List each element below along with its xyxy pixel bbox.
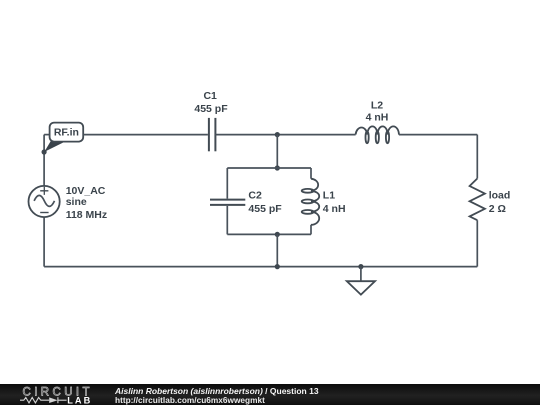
svg-text:LAB: LAB xyxy=(67,395,92,405)
svg-text:sine: sine xyxy=(66,196,87,208)
wire: tank bottom bar xyxy=(227,233,311,235)
svg-text:RF.in: RF.in xyxy=(54,127,79,139)
wire: C2 branch upper lead xyxy=(226,168,228,199)
CircuitLab logo squiggle: wire, resistor, diode xyxy=(20,397,67,403)
ground xyxy=(347,267,375,295)
wire: top from C1 to L2 xyxy=(215,134,355,136)
wire: middle branch from tank bottom bar to bottom rail xyxy=(276,234,278,266)
wire: L1 branch upper lead xyxy=(310,168,312,179)
svg-text:118 MHz: 118 MHz xyxy=(66,209,107,221)
wire: middle branch from top rail to tank top bar xyxy=(276,135,278,168)
wire: left stub from RF.in flag to left rail xyxy=(44,134,50,136)
svg-text:http://circuitlab.com/cu6mx6ww: http://circuitlab.com/cu6mx6wwegmkt xyxy=(115,395,265,405)
inductor L1 xyxy=(302,179,320,225)
capacitor C1 xyxy=(209,118,216,151)
svg-text:4 nH: 4 nH xyxy=(323,203,346,215)
node tank bottom junction dot xyxy=(275,232,280,237)
flag net label RF.in xyxy=(44,123,83,152)
svg-text:load: load xyxy=(489,190,511,202)
node tank top junction dot xyxy=(275,165,280,170)
wire: left rail from source bottom to bottom rail xyxy=(43,217,45,267)
inductor L2 xyxy=(356,126,399,143)
svg-text:L1: L1 xyxy=(323,190,335,202)
svg-text:4 nH: 4 nH xyxy=(366,112,389,124)
capacitor C2 xyxy=(210,200,245,205)
wire: top from L2 to right rail corner xyxy=(399,134,477,136)
wire: L1 branch lower lead xyxy=(310,225,312,235)
svg-text:455 pF: 455 pF xyxy=(194,103,228,115)
footer bar xyxy=(0,384,540,405)
node bottom-middle junction dot xyxy=(275,264,280,269)
node ground junction dot xyxy=(358,264,363,269)
wire: left rail vertical from corner down to source top xyxy=(43,135,45,186)
wire: C2 branch lower lead xyxy=(226,206,228,235)
svg-text:C2: C2 xyxy=(248,190,262,202)
wire: tank top bar xyxy=(227,167,311,169)
wire: bottom rail xyxy=(44,266,477,268)
svg-text:2 Ω: 2 Ω xyxy=(489,203,506,215)
wire: top from RF.in to C1 left plate xyxy=(83,134,208,136)
svg-text:455 pF: 455 pF xyxy=(248,203,282,215)
node RF.in junction dot xyxy=(42,149,47,154)
wire: right rail from load to bottom rail xyxy=(476,220,478,266)
svg-text:C1: C1 xyxy=(203,90,217,102)
svg-text:L2: L2 xyxy=(371,99,383,111)
node top-middle junction dot xyxy=(275,132,280,137)
voltage source V1 10V_AC xyxy=(28,186,59,217)
resistor load xyxy=(470,179,485,221)
wire: right rail down to load resistor xyxy=(476,135,478,179)
